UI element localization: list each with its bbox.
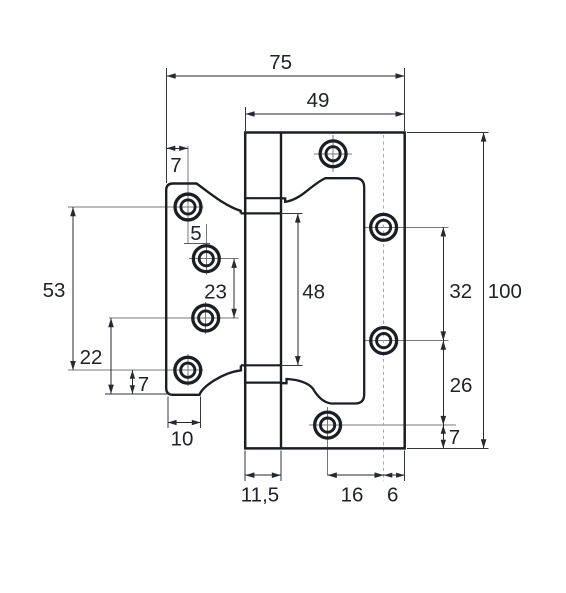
arrows 7 top	[167, 146, 176, 151]
hole RL	[371, 328, 397, 354]
dimension lines + arrows	[73, 76, 484, 475]
arrows 32	[441, 227, 447, 236]
left leaf outline	[166, 184, 241, 395]
hole BL	[175, 357, 201, 383]
hole MU	[193, 246, 219, 272]
arrows 23	[231, 259, 237, 268]
dim 7 left line	[131, 370, 133, 394]
ext 6 right	[404, 451, 406, 482]
svg-text:26: 26	[450, 374, 473, 397]
svg-text:100: 100	[488, 280, 522, 303]
right leaf inner pressed outline	[282, 178, 365, 403]
hole MU crosshair / 23-top extension	[189, 258, 239, 260]
knuckle right edge	[280, 133, 282, 449]
right leaf outer outline	[245, 133, 405, 449]
arrows 10	[168, 420, 177, 425]
hole TL crosshair / 53-top extension	[68, 206, 204, 208]
svg-text:23: 23	[204, 281, 227, 304]
arrows 75	[167, 73, 176, 79]
hole TL	[175, 194, 201, 220]
svg-text:10: 10	[171, 428, 194, 451]
dim 7 top line	[167, 148, 189, 150]
arrows 22	[108, 318, 114, 327]
arrows 7 right	[441, 425, 446, 434]
svg-text:6: 6	[387, 484, 398, 507]
hole RU crosshair / 32-top extension	[365, 226, 449, 228]
hole BC crosshair / 26-bottom + 7-right extension	[309, 424, 456, 426]
hole RL crosshair / 32-bottom + 26-top extension	[365, 340, 449, 342]
svg-text:48: 48	[302, 281, 325, 304]
ext 11,5 left	[244, 451, 246, 482]
ext 100 top	[407, 132, 489, 134]
svg-text:49: 49	[307, 89, 330, 112]
ext 22/7-left bottom	[105, 393, 172, 395]
ext 100/7-right bottom	[407, 447, 489, 449]
dim 53 line	[72, 207, 74, 370]
dashed hole centre line (right column)	[383, 135, 385, 481]
ext 75 left / 7-top left	[166, 68, 168, 183]
arrows 100	[481, 132, 487, 141]
hole TC crosshair	[314, 153, 352, 155]
arrows 48	[295, 213, 301, 222]
ext 75/49 right	[404, 68, 406, 131]
svg-text:11,5: 11,5	[241, 484, 279, 507]
svg-text:16: 16	[341, 484, 364, 507]
hole RU	[371, 214, 397, 240]
dim 5 line (thin, arrowless)	[184, 243, 210, 245]
arrows 26	[441, 341, 447, 350]
hole BC	[315, 412, 341, 438]
dim 49 line	[245, 113, 404, 115]
knuckle division line upper-2	[241, 212, 281, 214]
arrows 11,5	[245, 472, 254, 478]
dim 6 line	[384, 474, 405, 476]
dim 10 line	[168, 422, 201, 424]
arrows 7 left	[130, 370, 135, 379]
knuckle division line upper-1	[245, 197, 281, 199]
centerline crosshairs (gray)	[68, 135, 456, 476]
ext 10 left	[167, 397, 169, 429]
dim 23 line	[233, 259, 235, 318]
dim 100 line	[483, 132, 485, 448]
dim 48 line	[297, 213, 299, 365]
ext 49 left	[244, 107, 246, 131]
svg-text:53: 53	[43, 279, 66, 302]
arrows 6	[384, 473, 393, 478]
dim 11,5 line	[245, 474, 281, 476]
ext 48 bottom	[281, 364, 303, 366]
svg-text:22: 22	[80, 346, 103, 369]
dim 32/26/7 right line	[442, 227, 444, 448]
arrows 16	[328, 472, 337, 478]
svg-text:5: 5	[190, 222, 201, 245]
knuckle division line lower-1	[241, 364, 281, 366]
knuckle division line lower-2	[245, 382, 281, 384]
svg-text:32: 32	[449, 280, 472, 303]
ext 10 right	[200, 397, 202, 429]
arrows 53	[70, 207, 76, 216]
hole ML	[193, 305, 219, 331]
hole ML crosshair / 22-top + 23-bottom extension	[109, 317, 239, 319]
hole BL crosshair / 53-bottom + 7-left extension	[68, 369, 203, 371]
svg-text:7: 7	[170, 154, 181, 177]
svg-text:7: 7	[138, 373, 149, 396]
dim 16 line	[328, 474, 384, 476]
dim 22 line	[110, 318, 112, 394]
ext 48 top	[281, 212, 303, 214]
extension lines (dark thin)	[105, 68, 489, 481]
svg-text:75: 75	[269, 51, 292, 74]
svg-text:7: 7	[449, 426, 460, 449]
arrows 49	[245, 111, 254, 117]
dim 75 line	[167, 75, 405, 77]
dimension labels	[43, 51, 522, 507]
hole TC	[320, 141, 346, 167]
ext 11,5 right	[280, 451, 282, 482]
